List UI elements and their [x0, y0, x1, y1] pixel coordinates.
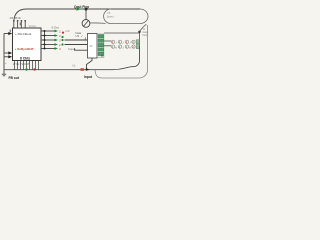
- svg-text:Ch.: Ch.: [72, 64, 76, 68]
- svg-text:+ SxRynOkIT: + SxRynOkIT: [15, 47, 34, 51]
- bottom rail wire: [4, 46, 140, 70]
- svg-text:FB out: FB out: [9, 76, 20, 80]
- wire oscillator to loop: [90, 22, 106, 24]
- red pin node: [33, 68, 35, 70]
- arrow into U1 left mid 2: [8, 55, 12, 58]
- red node dot row1: [62, 31, 64, 33]
- input arrow: [86, 68, 90, 71]
- arrow into U1 left mid 1: [8, 51, 12, 54]
- bus junctions: [44, 30, 46, 50]
- arrow into U1 pin 1: [8, 32, 12, 35]
- wire stub to oscillator: [85, 9, 87, 20]
- svg-text:U3: U3: [76, 34, 80, 38]
- pin top pads: [13, 20, 26, 22]
- green node dots: [61, 36, 63, 46]
- green arrows on rows: [55, 30, 59, 50]
- filter block U2: [88, 34, 98, 59]
- wire from U2 bottom to input rail: [87, 58, 93, 70]
- red refdes digits: [59, 29, 61, 51]
- tick above U2 wire: [84, 37, 86, 40]
- pin 3 pad: [20, 23, 22, 26]
- ground: [2, 74, 6, 76]
- svg-text:2r5 0i5 0n: 2r5 0i5 0n: [10, 16, 22, 20]
- svg-text:8 Ckts: 8 Ckts: [20, 56, 30, 60]
- oscillator Y1: [82, 20, 90, 28]
- svg-text:Input: Input: [84, 75, 93, 79]
- output wires of U1 right side: [41, 31, 57, 49]
- IC U1 (8 Ckts block): [13, 28, 42, 61]
- connector J1 green: [97, 34, 104, 58]
- svg-text:✓: ✓: [81, 34, 84, 38]
- svg-text:1T 1U P 2 U 1T: 1T 1U P 2 U 1T: [13, 63, 30, 66]
- svg-text:Spect: Spect: [107, 15, 114, 19]
- wire curve to loop: [140, 24, 147, 31]
- svg-text:Qout Finp: Qout Finp: [74, 5, 89, 9]
- varistor row A (RV1 RV2 RV3): [111, 40, 139, 45]
- svg-text:S Out: S Out: [52, 26, 59, 30]
- outer return wire: [95, 25, 148, 78]
- svg-text:o IF: o IF: [65, 29, 70, 33]
- svg-text:+ DA Clkout: + DA Clkout: [15, 32, 32, 36]
- connector pin node red: [101, 55, 103, 57]
- wire main top: [26, 8, 140, 10]
- green pin node: [25, 68, 27, 70]
- wires to filter block: [65, 40, 88, 50]
- junction dot right: [138, 31, 140, 33]
- signal arrow: [77, 7, 82, 11]
- svg-text:Voutq: Voutq: [29, 24, 37, 28]
- top pins of U1: [14, 21, 25, 29]
- tick above arrow: [9, 30, 11, 33]
- left rail: [4, 34, 9, 75]
- varistor row B (RV4 RV5 RV6): [111, 45, 139, 50]
- capacitor C7 red on rail: [81, 68, 84, 71]
- bus vertical: [44, 31, 46, 49]
- wires from connector right: [104, 33, 140, 46]
- wire feedback loop right U-turn: [104, 9, 148, 24]
- svg-text:Finp: Finp: [143, 34, 148, 37]
- bottom pins of U1: [15, 61, 39, 70]
- svg-text:9F: 9F: [90, 44, 93, 48]
- node junction top: [85, 8, 88, 11]
- wire arc from U1 top pin to main top wire: [14, 9, 26, 21]
